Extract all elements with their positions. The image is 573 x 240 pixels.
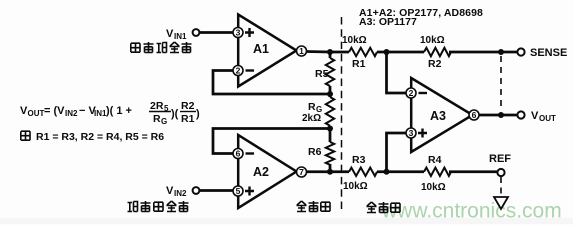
svg-text:2: 2	[236, 66, 241, 76]
svg-text:)(: )(	[171, 108, 179, 120]
label VIN1	[166, 28, 187, 41]
svg-text:5: 5	[236, 186, 241, 196]
op-amp A2	[238, 135, 296, 208]
svg-text:V: V	[166, 185, 174, 197]
svg-text:OUT: OUT	[28, 109, 45, 118]
svg-text:R6: R6	[308, 146, 322, 158]
svg-text:2kΩ: 2kΩ	[302, 113, 321, 124]
svg-text:6: 6	[472, 110, 477, 120]
pin 5 circle A2	[233, 186, 243, 196]
svg-text:3: 3	[236, 28, 241, 38]
resistor R1 zigzag	[349, 48, 377, 56]
formula line 2 当 R1=R3...	[21, 131, 164, 143]
svg-text:6: 6	[236, 149, 241, 159]
svg-text:R: R	[308, 101, 316, 113]
svg-text:3: 3	[409, 128, 414, 138]
wire A3 pin2 up to R1/R2 junction	[387, 52, 407, 93]
pin 6 circle A3 output	[469, 110, 479, 120]
resistor RG zigzag (vertical)	[326, 97, 334, 126]
resistor R2 zigzag	[424, 48, 451, 56]
svg-text:10kΩ: 10kΩ	[343, 181, 368, 192]
formula line 1	[20, 105, 132, 118]
svg-text:V: V	[531, 110, 539, 122]
terminal REF	[497, 169, 504, 176]
op-amp A1	[238, 15, 296, 87]
A2 minus sign (pin6)	[246, 152, 255, 154]
svg-text:= (V: = (V	[44, 105, 65, 117]
wire R3 to R4	[377, 170, 424, 173]
pin 2 circle A3	[406, 88, 416, 98]
op-amp A3	[411, 78, 472, 152]
wire VIN1 to A1 pin3	[199, 31, 233, 34]
dashed line REF to ground	[500, 177, 502, 196]
svg-text:A2: A2	[253, 165, 269, 179]
A1 minus sign (pin2)	[246, 69, 255, 71]
svg-text:1: 1	[299, 46, 304, 56]
wire R1 to R2	[377, 51, 424, 54]
svg-text:A3: A3	[430, 109, 446, 123]
bottom gray band	[0, 218, 573, 224]
A3 plus sign (pin3)	[418, 129, 427, 138]
svg-text:R5: R5	[315, 68, 329, 80]
terminal VOUT	[517, 111, 524, 118]
svg-text:): )	[196, 108, 200, 120]
label VOUT	[531, 110, 556, 123]
dashed line SENSE to VOUT	[500, 56, 502, 111]
label input stage 输入级	[297, 201, 331, 212]
svg-text:G: G	[161, 117, 167, 126]
svg-text:R1 = R3, R2 = R4, R5 = R6: R1 = R3, R2 = R4, R5 = R6	[36, 131, 164, 143]
label VIN2	[166, 185, 187, 198]
formula fraction R2/R1	[180, 100, 200, 125]
label 反相输入端	[131, 42, 192, 53]
svg-text:2: 2	[409, 88, 414, 98]
wire R2 to SENSE	[449, 51, 518, 54]
terminal VIN1	[193, 29, 200, 36]
wire vertical resistor chain column	[329, 52, 332, 172]
wire A1 output to R1	[306, 50, 349, 53]
junction dot VOUT node	[498, 112, 504, 118]
svg-text:IN1: IN1	[174, 32, 187, 41]
terminal SENSE	[517, 48, 524, 55]
wire R4 to REF	[449, 170, 498, 173]
svg-text:10kΩ: 10kΩ	[342, 35, 367, 46]
svg-text:10kΩ: 10kΩ	[420, 35, 445, 46]
label 同相输入端	[128, 201, 189, 212]
svg-text:R1: R1	[181, 113, 195, 125]
label output stage 输出级	[367, 202, 401, 213]
svg-text:R3: R3	[352, 154, 366, 166]
wire VIN2 to A2 pin5	[199, 189, 233, 192]
svg-text:R: R	[153, 113, 161, 125]
wire A3 pin3 down to R3/R4 junction	[387, 133, 407, 172]
svg-text:)( 1 +: )( 1 +	[106, 105, 132, 117]
svg-text:R2: R2	[181, 100, 195, 112]
svg-text:www.cntronics.com: www.cntronics.com	[381, 200, 562, 223]
svg-text:7: 7	[299, 167, 304, 177]
junction dot R6/A2out node	[327, 169, 333, 175]
junction dot RG/R6 node	[327, 126, 333, 132]
svg-text:OUT: OUT	[539, 114, 556, 123]
svg-text:A3: OP1177: A3: OP1177	[359, 16, 417, 28]
A2 plus sign (pin5)	[245, 187, 254, 196]
svg-text:IN2: IN2	[65, 109, 78, 118]
A3 minus sign (pin2)	[419, 92, 428, 94]
resistor R3 zigzag	[349, 168, 377, 176]
pin 1 circle A1 output	[297, 46, 307, 56]
svg-text:A1: A1	[253, 42, 269, 56]
resistor R4 zigzag	[424, 168, 451, 176]
wire A1 pin2 feedback to R5/RG junction	[213, 71, 330, 95]
svg-text:10kΩ: 10kΩ	[421, 182, 446, 193]
wire A2 pin6 feedback to RG/R6 junction	[213, 129, 330, 154]
svg-text:R1: R1	[352, 58, 366, 70]
dashed stage separator line	[341, 17, 343, 213]
junction dot R5/RG node	[327, 91, 333, 97]
pin 3 circle A3	[406, 128, 416, 138]
svg-text:R4: R4	[428, 154, 442, 166]
svg-text:IN2: IN2	[174, 189, 187, 198]
svg-text:V: V	[166, 28, 174, 40]
terminal VIN2	[193, 187, 200, 194]
svg-text:SENSE: SENSE	[530, 47, 567, 59]
wire A3 output to VOUT	[478, 114, 518, 117]
pin 7 circle A2 output	[297, 167, 307, 177]
pin 6 circle A2	[233, 149, 243, 159]
A1 plus sign (pin3)	[245, 28, 254, 37]
wire A2 output to R3	[306, 170, 349, 173]
resistor R6 zigzag (vertical)	[326, 142, 334, 165]
label RG	[308, 101, 322, 114]
svg-text:R2: R2	[428, 58, 442, 70]
pin 2 circle A1	[233, 66, 243, 76]
ground arrow	[494, 197, 508, 209]
svg-text:2R: 2R	[150, 100, 164, 112]
resistor R5 zigzag (vertical)	[326, 58, 334, 86]
pin 3 circle A1	[233, 28, 243, 38]
junction dot R3/R4 node	[384, 169, 390, 175]
junction dot SENSE node	[498, 49, 504, 55]
svg-text:REF: REF	[489, 153, 511, 165]
junction dot A1out/R5	[327, 49, 333, 55]
formula fraction 2R5/RG	[149, 100, 179, 126]
junction dot R1/R2 node	[384, 49, 390, 55]
